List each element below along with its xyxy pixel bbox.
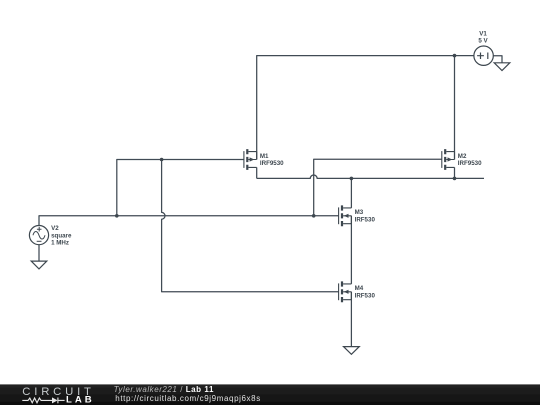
svg-text:V1: V1 — [479, 30, 487, 37]
node junction M2 drain on output net — [453, 177, 457, 181]
wire M2 gate lead down to input net — [314, 159, 442, 216]
svg-text:Tyler.walker221 / Lab 11: Tyler.walker221 / Lab 11 — [114, 385, 214, 394]
footer watermark bar — [0, 384, 540, 405]
wire input net from V2 to M3 gate — [39, 216, 339, 226]
svg-text:1 MHz: 1 MHz — [51, 239, 69, 246]
wire V2 bottom lead to ground — [38, 245, 40, 262]
voltage source V2 — [29, 226, 48, 245]
svg-text:IRF9530: IRF9530 — [458, 160, 482, 167]
svg-text:5 V: 5 V — [478, 37, 488, 44]
wire M3 source to M4 drain — [350, 216, 352, 284]
svg-text:M2: M2 — [458, 153, 467, 160]
svg-text:M3: M3 — [355, 209, 364, 216]
transistor M2 PMOS — [442, 149, 455, 170]
svg-text:IRF9530: IRF9530 — [260, 160, 284, 167]
wire M3 drain to output net — [350, 178, 352, 208]
wire vertical to M4 gate with hop over input net — [162, 160, 339, 292]
transistor M3 NMOS — [339, 205, 352, 226]
svg-text:M4: M4 — [355, 285, 364, 292]
ground at V2 — [31, 261, 47, 269]
wire M1 drain down to output net — [256, 167, 258, 178]
wire output net horizontal with hop over vertical — [257, 175, 484, 178]
ground at V1 — [494, 63, 510, 71]
node junction V2 branch on input net — [115, 214, 119, 218]
svg-text:square: square — [51, 232, 72, 239]
node junction M1 gate / M4 gate branch — [160, 158, 164, 162]
svg-text:IRF530: IRF530 — [355, 216, 376, 223]
svg-text:LAB: LAB — [66, 394, 95, 405]
transistor M1 PMOS — [244, 149, 257, 170]
wire VDD top rail and M1 source lead — [257, 56, 475, 160]
node junction M2 source on VDD rail — [453, 54, 457, 58]
svg-text:M1: M1 — [260, 153, 269, 160]
svg-text:V2: V2 — [51, 225, 59, 232]
svg-text:http://circuitlab.com/c9j9maqp: http://circuitlab.com/c9j9maqpj6x8s — [115, 394, 260, 403]
svg-text:IRF530: IRF530 — [355, 292, 376, 299]
ground at M4 source — [344, 347, 360, 355]
wire M1 gate lead from input net branch — [117, 160, 244, 216]
voltage source V1 — [474, 46, 493, 65]
transistor M4 NMOS — [339, 281, 352, 302]
wire M2 source to rail — [454, 56, 456, 160]
wire M2 drain down to output net — [454, 167, 456, 178]
node junction M3 drain on output net — [350, 177, 354, 181]
wire V1 right lead to ground — [493, 56, 502, 63]
logo resistor zigzag and diode — [22, 397, 64, 403]
node junction M2 gate branch on input net — [312, 214, 316, 218]
wire M4 source to ground — [350, 292, 352, 347]
